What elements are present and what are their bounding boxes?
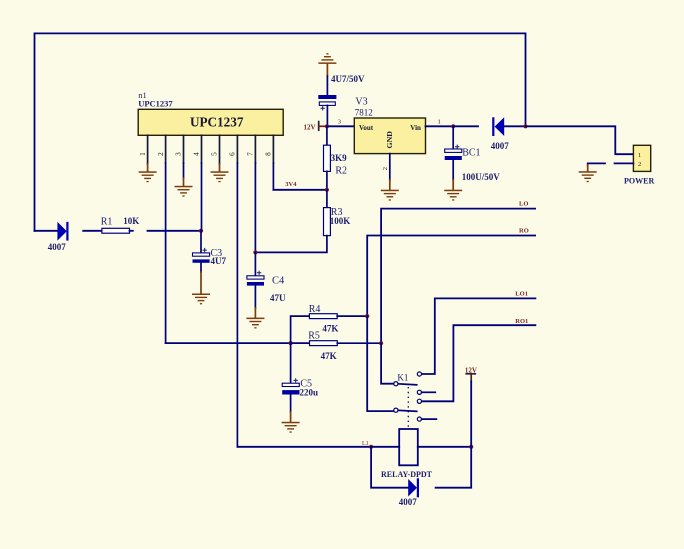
wire 12V to 7812 Vout [327,125,354,127]
wire net RO [367,236,535,317]
svg-text:7812: 7812 [355,108,373,118]
svg-text:1: 1 [438,119,441,126]
wire RO down to relay common2 [367,316,394,411]
wire net LO1 [422,298,536,374]
svg-text:2: 2 [157,152,165,156]
wire D1 to R1 [83,230,102,232]
ground POWER [579,171,597,182]
resistor R5 [308,331,337,362]
pin 5 [219,135,221,164]
wire top gnd to C6 [326,76,328,95]
wire pin2 to R4/R5 node [166,342,291,344]
svg-text:RO: RO [519,227,529,234]
wire C4 ground stem [254,308,256,318]
svg-text:47U: 47U [270,293,286,303]
svg-text:47K: 47K [322,323,338,333]
wire POWER pin2 lead [615,162,634,164]
svg-text:R1: R1 [101,216,113,227]
wire left to diode D1 [35,230,57,232]
svg-text:8: 8 [265,152,273,156]
diode D3 4007 [399,478,419,507]
svg-text:Vin: Vin [410,124,421,132]
ground C5 [282,422,300,433]
wire node to R5 [291,342,310,344]
svg-text:4U7: 4U7 [211,256,227,266]
ground pin3 [175,186,193,197]
svg-text:V3: V3 [355,96,367,107]
svg-text:4: 4 [193,152,201,156]
wire pin1 ground stem [147,164,149,171]
svg-text:L1: L1 [362,441,369,447]
capacitor C4 [247,252,286,308]
pin 8 [272,135,274,163]
node coil right [469,445,473,449]
wire net RO1 [422,325,536,401]
wire pin5 ground stem [219,164,221,171]
node R4/R5/C5 [289,341,293,345]
wire node to POWER pin1 [526,126,634,154]
op-amp U1 UPC1237 box [138,90,283,135]
pin 4 [201,135,203,163]
node top loop [523,124,527,128]
wire BC1 ground stem [452,180,454,190]
svg-text:7: 7 [247,152,255,156]
wire L1 to coil [371,446,399,448]
pin 6 [236,135,238,163]
node junction R1/pin4/C3 [199,229,203,233]
power port 12V relay [465,366,477,446]
svg-text:5: 5 [211,152,219,156]
svg-text:LO: LO [519,201,528,208]
capacitor C6 4U7/50V [318,74,365,126]
node BC1 [451,124,455,128]
wire R5 to LO line [337,342,381,344]
svg-text:K1: K1 [397,372,408,382]
relay K1 switch pole2 [394,399,437,421]
power port 12V left [304,122,327,132]
wire BC1 node to D2 [453,125,478,127]
wire coil to 12V node [418,446,471,448]
node R4/RO [365,314,369,318]
svg-text:RELAY-DPDT: RELAY-DPDT [381,470,433,479]
svg-text:R4: R4 [309,304,321,315]
wire net LO [381,209,535,344]
svg-text:Vout: Vout [359,124,374,132]
diode D2 4007 [491,117,510,151]
svg-text:3: 3 [175,152,183,156]
wire pin3 ground stem [183,178,185,186]
svg-text:1: 1 [638,152,641,159]
capacitor C3 [193,231,227,272]
wire POWER ground stem [587,165,589,171]
svg-text:RO1: RO1 [515,318,528,325]
wire D2 to top loop node [504,125,525,127]
svg-text:C4: C4 [272,276,285,287]
capacitor C5 [282,343,318,412]
svg-text:3: 3 [338,119,341,126]
diode D1 4007 [48,222,69,252]
relay K1 switch pole1 [394,372,436,395]
wire POWER pin2 to ground [588,163,605,165]
node L1 [369,445,373,449]
wire LO down to relay common1 [381,343,394,384]
ground BC1 [444,190,462,201]
relay K1 linkage dotted [407,387,409,429]
pin 7 [254,135,256,163]
svg-text:12V: 12V [304,124,316,132]
svg-text:100U/50V: 100U/50V [462,172,501,182]
ground V3 [381,190,399,201]
svg-text:3V4: 3V4 [285,181,297,188]
wire Vin to BC1 node [426,125,454,127]
wire D3 to 12V node [436,447,472,488]
node R5/LO [379,341,383,345]
wire C5 ground stem [290,412,292,422]
svg-text:4007: 4007 [48,242,67,252]
svg-text:POWER: POWER [624,177,654,186]
wire pin8 to 3V4 node [273,189,327,191]
pin 3 [183,135,185,163]
wire pin6 to L1 node [237,446,371,448]
svg-text:100K: 100K [330,216,351,226]
wire R4 to RO line [337,315,367,317]
ground C4 [246,318,264,329]
svg-text:10K: 10K [123,216,139,226]
wire C3 ground stem [200,272,202,294]
resistor R2 [324,126,348,190]
node pin7/C4 [253,250,257,254]
wire R1 right lead [130,230,133,232]
pin 1 [147,135,149,164]
svg-text:3K9: 3K9 [331,153,348,163]
svg-text:LO1: LO1 [515,291,528,298]
relay K1 coil [381,429,433,479]
pin 2 [165,135,167,163]
svg-text:1: 1 [139,152,147,156]
wire top feedback loop [35,33,526,230]
svg-text:UPC1237: UPC1237 [138,98,173,108]
capacitor BC1 [445,126,501,182]
voltage regulator V3 7812 [354,96,425,153]
svg-text:6: 6 [229,152,237,156]
svg-text:4007: 4007 [399,497,418,507]
ground C3 [192,294,210,305]
ground top inverted [318,53,336,76]
wire R1 to node at C3 [148,230,202,232]
wire L1 down to D3 [371,447,408,488]
node 12V junction [325,124,329,128]
connector POWER [624,145,654,185]
svg-text:4007: 4007 [491,141,510,151]
svg-text:220u: 220u [300,388,319,398]
svg-text:47K: 47K [321,351,337,361]
svg-text:R2: R2 [335,166,347,177]
svg-text:UPC1237: UPC1237 [190,115,244,130]
node 3V4 [325,188,329,192]
pin 2 of V3 [389,154,391,180]
wire node up to R4 [291,316,310,343]
resistor R4 [309,304,339,333]
svg-text:2: 2 [382,167,389,170]
ground pin1 [139,171,157,182]
ground pin5 [211,171,229,182]
svg-text:R5: R5 [308,331,320,342]
resistor R1 [101,216,140,233]
svg-text:2: 2 [638,161,641,168]
wire V3 ground stem [389,180,391,190]
svg-text:BC1: BC1 [462,147,480,158]
svg-text:GND: GND [385,131,394,149]
resistor R3 [255,190,350,253]
svg-text:4U7/50V: 4U7/50V [331,74,365,84]
